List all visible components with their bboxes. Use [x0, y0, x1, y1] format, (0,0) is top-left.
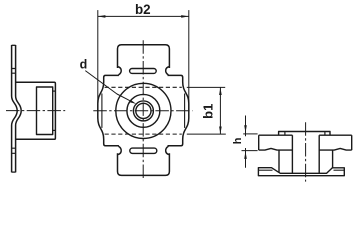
- front view: top slot: [130, 69, 157, 74]
- left side view: nut inner rectangle: [37, 87, 53, 135]
- left side view: top step tick: [53, 90, 56, 92]
- front view: body right flank with side tab: [168, 75, 189, 145]
- right side view: left flag sheet line: [258, 169, 272, 171]
- right side view: right block outer edge: [351, 135, 353, 150]
- right side view: base bar outline: [258, 168, 344, 176]
- dimension h: top extension line: [243, 133, 257, 135]
- front view: bottom tab left root hook: [118, 146, 122, 154]
- right side view: left block outer edge: [258, 135, 260, 150]
- dimension h: upper dimension line: [245, 116, 247, 137]
- dimension h: lower dimension line: [245, 148, 247, 168]
- front view: bottom tab outline: [118, 153, 170, 175]
- front view: top tab outline: [118, 45, 170, 68]
- dimension b2: dimension line: [98, 15, 189, 17]
- dimension b1: top extension line: [187, 86, 225, 88]
- front view: left side tab bend line: [101, 94, 103, 128]
- left side view: bottom step tick: [53, 129, 56, 131]
- dimension b1: bottom extension line: [187, 133, 226, 135]
- svg-text:d: d: [80, 57, 88, 71]
- svg-text:b1: b1: [201, 104, 216, 119]
- left side view: clip strip left edge with hump: [12, 45, 18, 172]
- dimension b1: dimension line: [219, 87, 221, 134]
- left side view: strip bottom end cap: [12, 171, 16, 173]
- dimension b2: left arrowhead: [98, 15, 106, 18]
- left side view: cage box outline: [16, 82, 56, 139]
- dimension b2: left extension line: [97, 10, 99, 103]
- right side view: right block bottom edge with notch: [319, 148, 352, 150]
- right side view: right flag sheet line: [334, 169, 345, 171]
- front view: outer boss circle: [116, 83, 171, 138]
- left side view: strip top end cap: [12, 44, 16, 46]
- right side view: right stem outer edge: [332, 150, 334, 168]
- right side view: right stem inner edge: [318, 135, 320, 173]
- dimension d: leader line: [85, 71, 131, 102]
- dimension b2: right extension line: [188, 10, 190, 103]
- front view: bottom slot: [130, 148, 157, 153]
- dimension h: bottom extension line: [242, 150, 258, 152]
- front view: bottom tab right root hook: [166, 146, 170, 154]
- svg-text:b2: b2: [135, 2, 151, 17]
- front view: upper hidden edge dashed line: [105, 86, 182, 88]
- front view: right side tab bend line: [184, 94, 186, 128]
- left side view: horizontal centerline: [6, 110, 65, 112]
- right side view: right block top edge: [319, 134, 352, 136]
- right side view: top strip left tick: [284, 132, 286, 136]
- front view: body left flank with side tab: [98, 75, 119, 145]
- left side view: top slot edge ticks: [12, 69, 16, 74]
- front view: top tab left root hook: [118, 67, 122, 75]
- dimension b2: right arrowhead: [181, 15, 189, 18]
- front view: vertical centerline: [142, 40, 144, 180]
- dimension b1: top arrowhead: [219, 87, 222, 95]
- left side view: clip strip right edge with hump: [16, 45, 22, 172]
- svg-text:h: h: [232, 137, 244, 144]
- dimension h: bottom arrowhead: [244, 151, 247, 159]
- front view: hole circle: [136, 103, 151, 118]
- right side view: left block bottom edge with notch: [259, 148, 293, 150]
- left side view: bottom slot edge ticks: [12, 148, 16, 153]
- front view: top tab right root hook: [166, 67, 170, 75]
- right side view: top strip right tick: [324, 132, 326, 136]
- dimension h: top arrowhead: [244, 125, 247, 133]
- right side view: vertical centerline: [305, 122, 307, 181]
- front view: lower hidden edge dashed line: [105, 133, 182, 135]
- right side view: left block top edge: [259, 134, 293, 136]
- right side view: top strip edge: [279, 132, 330, 136]
- dimension b1: bottom arrowhead: [219, 127, 222, 135]
- front view: collar circle: [127, 94, 160, 127]
- front view: chamfer circle: [133, 101, 153, 121]
- right side view: left stem outer edge: [278, 150, 280, 172]
- dimension d: leader arrowhead: [130, 100, 137, 104]
- front view: horizontal centerline: [93, 110, 192, 112]
- right side view: left stem inner edge: [291, 135, 293, 173]
